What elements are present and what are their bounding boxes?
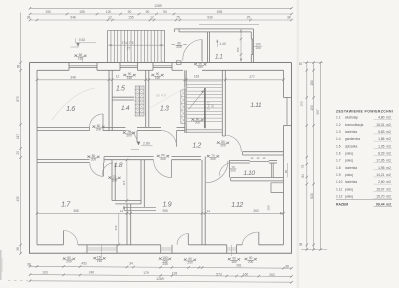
svg-text:200: 200 bbox=[248, 260, 253, 264]
svg-text:200: 200 bbox=[96, 128, 101, 132]
chimney flue stack at stairwell bbox=[181, 90, 186, 124]
svg-text:1,95: 1,95 bbox=[378, 166, 385, 170]
svg-text:1.7: 1.7 bbox=[336, 159, 341, 163]
interior wall room 1.6 right vertical bbox=[108, 70, 110, 130]
svg-text:38: 38 bbox=[299, 243, 303, 247]
dimension lines right vertical chains bbox=[303, 62, 323, 64]
svg-text:lazienka: lazienka bbox=[345, 130, 357, 134]
svg-text:150: 150 bbox=[255, 46, 261, 50]
svg-text:12: 12 bbox=[251, 156, 254, 160]
faint pencil arc room 1.6 bbox=[52, 88, 95, 120]
svg-text:300: 300 bbox=[267, 205, 271, 210]
svg-text:200: 200 bbox=[220, 144, 226, 148]
dimension line bottom chain 1 bbox=[30, 266, 292, 268]
svg-text:m2: m2 bbox=[386, 202, 391, 206]
svg-text:1289: 1289 bbox=[154, 4, 162, 8]
svg-text:m2: m2 bbox=[386, 166, 391, 170]
svg-text:38: 38 bbox=[287, 16, 291, 20]
svg-text:160: 160 bbox=[243, 273, 249, 277]
svg-text:pokoj: pokoj bbox=[345, 159, 353, 163]
svg-text:12: 12 bbox=[116, 75, 120, 79]
svg-text:1.40: 1.40 bbox=[219, 42, 226, 46]
svg-text:200: 200 bbox=[160, 157, 165, 161]
niche box room 1.12 at right wall bbox=[271, 183, 284, 193]
svg-text:200: 200 bbox=[176, 45, 181, 49]
svg-text:90: 90 bbox=[146, 10, 150, 14]
bathroom 1.8 walls bbox=[111, 160, 113, 201]
svg-text:348: 348 bbox=[70, 75, 76, 79]
vertical dimension 1.10 right bbox=[287, 163, 289, 178]
svg-text:12: 12 bbox=[150, 16, 154, 20]
svg-text:38: 38 bbox=[285, 264, 289, 268]
svg-text:lazienka: lazienka bbox=[345, 180, 357, 184]
svg-text:pokoj: pokoj bbox=[345, 173, 353, 177]
svg-text:1.9: 1.9 bbox=[162, 199, 171, 208]
svg-text:1.7: 1.7 bbox=[61, 200, 71, 209]
canopy line above entrance bbox=[199, 23, 259, 25]
svg-text:m2: m2 bbox=[386, 159, 391, 163]
svg-text:120: 120 bbox=[106, 10, 112, 14]
svg-text:1.11: 1.11 bbox=[336, 187, 342, 191]
svg-text:875: 875 bbox=[16, 96, 20, 102]
window O2 top wall of room 1.5 bbox=[119, 63, 121, 71]
svg-text:99,44: 99,44 bbox=[376, 202, 385, 206]
svg-text:m2: m2 bbox=[386, 137, 391, 141]
svg-text:m2: m2 bbox=[386, 187, 391, 191]
interior wall room 1.6 bottom / corridor north bbox=[37, 126, 90, 128]
entrance door leaf and swing arc bbox=[201, 40, 203, 62]
svg-text:930: 930 bbox=[207, 16, 213, 20]
svg-text:639: 639 bbox=[217, 10, 223, 14]
door bathroom 1.8 swing arc bbox=[102, 163, 113, 176]
svg-text:2,60: 2,60 bbox=[378, 180, 385, 184]
svg-text:m2: m2 bbox=[386, 123, 391, 127]
staircase direction arrow bbox=[189, 91, 205, 110]
bathroom 1.10 north wall dashed lintel bbox=[250, 161, 269, 163]
dimension line bottom chain 2 bbox=[30, 275, 292, 277]
chimney flue stack center rooms bbox=[135, 86, 144, 116]
svg-text:1289: 1289 bbox=[156, 277, 164, 281]
window vestibule right wall bbox=[251, 38, 253, 40]
svg-text:75: 75 bbox=[301, 165, 305, 169]
svg-text:m2: m2 bbox=[386, 151, 391, 155]
vestibule 1.1 walls bbox=[207, 32, 209, 63]
svg-text:5,83: 5,83 bbox=[378, 130, 385, 134]
svg-text:komunikacja: komunikacja bbox=[345, 123, 363, 127]
svg-text:pokoj: pokoj bbox=[345, 187, 353, 191]
svg-text:1.1: 1.1 bbox=[215, 54, 222, 61]
svg-text:1.6: 1.6 bbox=[66, 104, 75, 113]
wardrobe outline below bathroom bbox=[124, 206, 156, 208]
svg-text:17x17.5: 17x17.5 bbox=[121, 41, 133, 45]
svg-text:38: 38 bbox=[16, 65, 20, 69]
svg-text:1.2: 1.2 bbox=[336, 123, 341, 127]
svg-text:435: 435 bbox=[16, 196, 20, 202]
interior wall 1.5/1.4 divider bbox=[112, 96, 134, 98]
dimension line left vertical chain bbox=[20, 13, 22, 255]
window bottom wall room 1.7 bbox=[86, 245, 88, 254]
svg-text:150: 150 bbox=[310, 105, 314, 111]
svg-text:38: 38 bbox=[16, 247, 20, 251]
bathroom partition wall bbox=[271, 163, 273, 178]
svg-text:12: 12 bbox=[257, 156, 260, 160]
interior wall 1.3 bottom with door opening bbox=[149, 126, 161, 128]
dimension line top chain 190/155/120/90/90/90/639 bbox=[30, 13, 292, 15]
svg-text:115: 115 bbox=[122, 180, 126, 185]
svg-text:200: 200 bbox=[126, 134, 131, 138]
stairwell right wall bbox=[221, 70, 223, 136]
svg-text:1.10: 1.10 bbox=[243, 170, 255, 177]
corridor south wall left segment with 1.7 door bbox=[37, 159, 90, 161]
svg-text:150: 150 bbox=[162, 260, 167, 264]
svg-text:1.9: 1.9 bbox=[336, 173, 341, 177]
outer wall main outline bbox=[30, 63, 292, 254]
svg-text:150: 150 bbox=[236, 47, 240, 52]
window bottom wall room 1.9 bbox=[160, 245, 162, 254]
svg-text:103: 103 bbox=[42, 270, 48, 274]
svg-text:38: 38 bbox=[27, 16, 31, 20]
scan edge artifact bottom left bbox=[0, 250, 2, 280]
svg-text:14,21: 14,21 bbox=[376, 173, 384, 177]
door room 1.4 leaf and arc bbox=[136, 131, 138, 143]
svg-text:179: 179 bbox=[143, 271, 149, 275]
svg-text:160: 160 bbox=[155, 76, 160, 80]
corridor south wall middle segment bbox=[104, 156, 154, 158]
svg-text:1.5: 1.5 bbox=[336, 144, 341, 148]
svg-text:1.5: 1.5 bbox=[116, 86, 125, 93]
svg-text:200: 200 bbox=[195, 121, 200, 125]
svg-text:948: 948 bbox=[70, 16, 76, 20]
inner wall face main bbox=[37, 69, 69, 71]
svg-text:29: 29 bbox=[211, 104, 215, 108]
svg-text:pokoj: pokoj bbox=[345, 194, 353, 198]
svg-text:180: 180 bbox=[310, 80, 314, 86]
svg-text:150: 150 bbox=[97, 259, 102, 263]
door room 1.11 swing arc bbox=[225, 135, 242, 152]
door room 1.12 swing arc bbox=[206, 161, 228, 183]
interior wall 1.4 bottom with door opening bbox=[112, 126, 125, 128]
door room 1.7 from corridor leaf and arc bbox=[103, 163, 105, 176]
svg-text:75: 75 bbox=[176, 16, 180, 20]
svg-text:27: 27 bbox=[127, 46, 131, 50]
interior dimension line lower rooms bbox=[37, 212, 284, 214]
dimension line bottom overall 1289 bbox=[30, 281, 292, 282]
door bathroom 1.10 swing arc bbox=[219, 163, 229, 176]
svg-text:190: 190 bbox=[45, 10, 51, 14]
svg-text:84: 84 bbox=[301, 174, 305, 178]
svg-text:200: 200 bbox=[66, 260, 71, 264]
svg-text:90: 90 bbox=[163, 10, 167, 14]
svg-text:435: 435 bbox=[114, 225, 118, 230]
svg-text:1.3: 1.3 bbox=[160, 106, 169, 113]
svg-text:358: 358 bbox=[73, 209, 79, 213]
svg-text:200: 200 bbox=[210, 157, 215, 161]
svg-text:160: 160 bbox=[127, 76, 132, 80]
svg-text:15,70: 15,70 bbox=[376, 194, 384, 198]
interior dimension line upper rooms bbox=[37, 79, 284, 81]
svg-text:8,29: 8,29 bbox=[378, 151, 385, 155]
svg-text:12: 12 bbox=[263, 156, 266, 160]
svg-text:pokoj: pokoj bbox=[345, 151, 353, 155]
wall pier stub left of entrance door bbox=[176, 61, 181, 65]
svg-text:200: 200 bbox=[187, 261, 192, 265]
interior staircase treads and stringer bbox=[186, 80, 222, 82]
bathroom 1.10 south wall bbox=[231, 177, 284, 179]
svg-text:277: 277 bbox=[249, 75, 255, 79]
svg-text:38: 38 bbox=[27, 262, 31, 266]
window O3 top wall of room 1.3 bbox=[152, 63, 154, 71]
svg-text:1,86: 1,86 bbox=[378, 137, 385, 141]
svg-text:15,01: 15,01 bbox=[376, 123, 384, 127]
svg-text:117: 117 bbox=[16, 134, 20, 139]
svg-text:RAZEM: RAZEM bbox=[336, 202, 348, 206]
entrance landing and vestibule top outline bbox=[175, 28, 254, 30]
svg-text:160: 160 bbox=[231, 260, 236, 264]
svg-text:1.2: 1.2 bbox=[192, 143, 201, 150]
door room 1.9 leaf and arc bbox=[171, 160, 173, 178]
dimension line top overall 1289 bbox=[30, 7, 292, 9]
svg-text:1.12: 1.12 bbox=[336, 194, 343, 198]
svg-text:15,07: 15,07 bbox=[376, 187, 384, 191]
corridor-1.11 wall bbox=[243, 151, 284, 153]
svg-text:1.8: 1.8 bbox=[114, 162, 123, 169]
vertical dimension line 1.7 side bbox=[118, 213, 120, 245]
svg-text:25: 25 bbox=[122, 206, 126, 210]
svg-text:17,05: 17,05 bbox=[376, 159, 384, 163]
svg-text:263: 263 bbox=[269, 273, 275, 277]
svg-text:1.4: 1.4 bbox=[336, 137, 341, 141]
svg-text:ZESTAWIENIE POWIERZCHNI: ZESTAWIENIE POWIERZCHNI bbox=[336, 109, 393, 113]
bathroom 1.10 north wall bbox=[230, 159, 250, 161]
level mark 2.80 in corridor bbox=[137, 142, 140, 145]
svg-text:453: 453 bbox=[81, 261, 87, 265]
svg-text:200: 200 bbox=[91, 158, 96, 162]
paper crease line right bbox=[296, 0, 299, 288]
svg-text:m2: m2 bbox=[386, 194, 391, 198]
svg-text:25: 25 bbox=[16, 151, 20, 155]
svg-text:240: 240 bbox=[89, 270, 95, 274]
window O1 top wall of room 1.6 bbox=[68, 63, 70, 71]
svg-text:200: 200 bbox=[112, 179, 117, 183]
svg-text:m2: m2 bbox=[386, 130, 391, 134]
svg-text:lazienka: lazienka bbox=[345, 166, 357, 170]
svg-text:155: 155 bbox=[79, 10, 85, 14]
svg-text:1.4: 1.4 bbox=[121, 105, 130, 112]
svg-text:193: 193 bbox=[172, 272, 178, 276]
svg-text:163: 163 bbox=[194, 75, 200, 79]
svg-text:281: 281 bbox=[236, 264, 242, 268]
svg-text:957: 957 bbox=[316, 109, 320, 115]
corridor south wall right segment bbox=[172, 156, 202, 158]
svg-text:573: 573 bbox=[216, 272, 222, 276]
svg-text:m2: m2 bbox=[386, 180, 391, 184]
svg-text:0.52: 0.52 bbox=[79, 38, 86, 42]
svg-text:263: 263 bbox=[253, 209, 259, 213]
svg-text:garderoba: garderoba bbox=[345, 137, 360, 141]
svg-text:200: 200 bbox=[198, 65, 203, 69]
svg-text:155: 155 bbox=[128, 16, 134, 20]
svg-text:90: 90 bbox=[284, 170, 288, 174]
exterior stairs dimension arrow 17x17.5/27 bbox=[109, 44, 164, 46]
svg-text:1.11: 1.11 bbox=[250, 102, 261, 109]
svg-text:185: 185 bbox=[78, 57, 83, 61]
svg-text:395: 395 bbox=[162, 209, 168, 213]
svg-text:1.3: 1.3 bbox=[336, 130, 341, 134]
svg-text:12: 12 bbox=[207, 209, 211, 213]
svg-text:1.8: 1.8 bbox=[336, 166, 341, 170]
exterior staircase 17 risers bbox=[107, 30, 109, 62]
svg-text:m2: m2 bbox=[386, 173, 391, 177]
svg-text:1.1: 1.1 bbox=[336, 116, 341, 120]
svg-text:12: 12 bbox=[108, 16, 112, 20]
svg-text:4,80: 4,80 bbox=[378, 116, 385, 120]
svg-text:200: 200 bbox=[230, 169, 235, 173]
window right wall room 1.11 bbox=[284, 97, 292, 99]
svg-text:1.12: 1.12 bbox=[231, 202, 243, 209]
svg-text:820: 820 bbox=[310, 193, 314, 199]
svg-text:34: 34 bbox=[129, 261, 133, 265]
svg-text:spizarka: spizarka bbox=[345, 144, 357, 148]
svg-text:1.10: 1.10 bbox=[336, 180, 343, 184]
window bottom wall room 1.12 bbox=[226, 245, 228, 254]
svg-text:25: 25 bbox=[247, 16, 251, 20]
interior wall 1.9/1.12 divider bbox=[201, 160, 203, 245]
svg-text:m2: m2 bbox=[386, 116, 391, 120]
svg-text:do 4.9: do 4.9 bbox=[156, 94, 166, 98]
door terrace room 1.7 with swing arc bbox=[63, 231, 65, 245]
door room 1.6 leaf and arc bbox=[102, 114, 104, 128]
svg-text:m2: m2 bbox=[386, 144, 391, 148]
svg-text:2.80: 2.80 bbox=[143, 142, 150, 146]
vertical dimension line vestibule bbox=[240, 30, 242, 62]
svg-text:1,05: 1,05 bbox=[378, 144, 385, 148]
svg-text:150: 150 bbox=[300, 101, 304, 106]
dimension line top chain 38/948/12/155/12/75/930 bbox=[30, 19, 292, 21]
svg-text:wiatrolap: wiatrolap bbox=[345, 116, 358, 120]
svg-text:90: 90 bbox=[128, 10, 132, 14]
door terrace room 1.12 with swing arc bbox=[258, 232, 260, 245]
door terrace room 1.9 with swing arc bbox=[187, 234, 189, 245]
vertical dimension line 1.8 corridor bbox=[126, 160, 128, 214]
interior wall 1.7/1.9 divider bbox=[126, 204, 128, 245]
door room 1.3 leaf and arc bbox=[176, 131, 178, 147]
interior wall 1.5-1.3 divider vertical bbox=[145, 70, 147, 127]
chimney flue wall left of stairs vertical bbox=[184, 70, 186, 133]
svg-text:1.6: 1.6 bbox=[336, 151, 341, 155]
